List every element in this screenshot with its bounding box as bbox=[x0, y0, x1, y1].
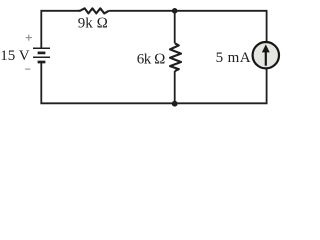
wire top-left segment with corner bbox=[41, 11, 78, 48]
current source I1 arrow head bbox=[262, 44, 270, 52]
voltage source V1 battery plates bbox=[33, 48, 50, 62]
node A junction dot top bbox=[172, 8, 178, 14]
wire bottom-right segment with corner bbox=[175, 68, 267, 103]
wire middle branch bottom bbox=[174, 71, 176, 103]
resistor R2 zigzag vertical bbox=[170, 43, 181, 71]
wire left bottom segment with corner bbox=[41, 63, 174, 104]
svg-text:15 V: 15 V bbox=[0, 48, 29, 64]
current source I1 arrow shaft bbox=[265, 51, 267, 66]
svg-text:9k Ω: 9k Ω bbox=[78, 15, 108, 31]
resistor R1 zigzag bbox=[78, 8, 109, 13]
wire top-right segment with corner bbox=[109, 11, 267, 43]
voltage source V1 minus sign bbox=[25, 68, 30, 70]
current source I1 circle bbox=[253, 42, 279, 68]
svg-text:6k Ω: 6k Ω bbox=[137, 51, 165, 67]
voltage source V1 plus sign bbox=[26, 35, 32, 41]
svg-text:5 mA: 5 mA bbox=[216, 50, 251, 66]
wire middle branch top bbox=[174, 11, 176, 44]
node B junction dot bottom bbox=[172, 101, 178, 107]
